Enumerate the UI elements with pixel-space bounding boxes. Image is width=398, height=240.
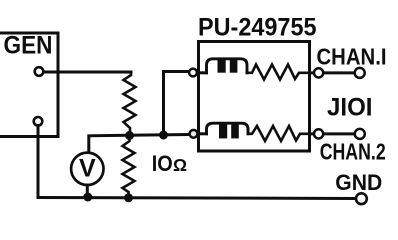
svg-text:IO: IO [152,151,173,176]
wire: pickup output 1 to CHAN.1 jack [310,71,356,74]
terminal: GEN output 2 [34,117,43,126]
inductor L2 [207,123,249,134]
terminal: GEN output 1 [35,67,44,76]
svg-text:V: V [79,155,96,183]
wire: ground rail (bottom) [38,198,356,199]
terminal: CHAN.1 jack [355,68,365,78]
svg-text:PU-249755: PU-249755 [198,14,317,42]
wire: box edge to coil L2 [198,132,207,135]
node: junction lower resistor/ground rail [124,193,133,202]
resistor R3 [247,65,310,80]
terminal: pickup input 1 [189,69,197,77]
wire: GEN output 1 to resistor top [44,71,132,74]
node: junction voltmeter/ground rail [83,193,92,202]
svg-text:GND: GND [335,170,382,195]
terminal: pickup input 2 [190,130,198,138]
node: resistor tap junction [125,131,134,140]
resistor R1 (upper half, vertical) [124,72,136,136]
svg-text:CHAN.I: CHAN.I [317,44,387,70]
svg-text:CHAN.2: CHAN.2 [320,139,386,165]
wire: branch up to channel-1 pickup terminal [164,72,189,136]
svg-text:GEN: GEN [4,32,53,60]
generator box GEN [0,33,58,137]
wire: GEN output 2 down to ground rail [37,126,40,198]
wire: voltmeter to ground rail [86,185,89,198]
terminal: GND jack [356,193,367,204]
terminal: channel 1 wire ring [314,68,323,77]
inductor L1 [207,59,248,73]
node: junction at mid rail / channel-1 branch [159,131,168,140]
svg-text:Ω: Ω [173,155,187,175]
wire: box edge to coil L1 [198,71,207,74]
voltmeter V [71,153,103,185]
wire: mid rail (resistor tap to pickup terminals) [89,135,189,153]
terminal: CHAN.2 jack [355,129,365,139]
resistor R4 [248,126,310,141]
resistor R2 (lower half, vertical) [123,136,135,198]
svg-text:JIOI: JIOI [327,93,373,121]
pickup assembly box [199,42,310,152]
wire: pickup output 2 to CHAN.2 jack [310,132,356,135]
terminal: channel 2 wire ring [314,129,323,138]
